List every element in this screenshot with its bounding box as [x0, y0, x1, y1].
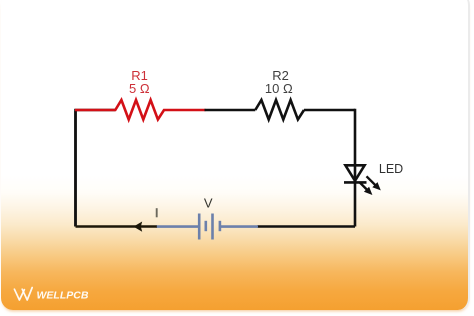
resistor R2 (black zigzag)	[255, 100, 304, 120]
current label I	[156, 208, 158, 217]
svg-text:WELLPCB: WELLPCB	[37, 289, 89, 301]
resistor R1 designator label	[131, 68, 148, 83]
wire: left vertical (black)	[74, 111, 77, 227]
current direction arrow (pointing left)	[134, 222, 143, 232]
wire: top middle black segment	[205, 109, 256, 112]
wire: top-left corner joint	[76, 110, 116, 227]
wire: battery right blue lead	[220, 225, 258, 228]
LED label	[379, 162, 403, 176]
resistor R1 (red zigzag + red leads)	[75, 100, 206, 120]
resistor R2 value label 10 Ω	[265, 81, 293, 96]
resistor R1 value label 5 Ω	[129, 81, 150, 96]
wire: right vertical segment	[354, 109, 357, 227]
LED D1 symbol (triangle + cathode bar + emission arrows)	[344, 165, 381, 195]
watermark logo: W icon	[14, 288, 32, 301]
battery label V	[204, 196, 213, 211]
svg-text:10 Ω: 10 Ω	[265, 81, 293, 96]
wire: top-right black segment	[304, 109, 355, 112]
svg-text:V: V	[204, 196, 213, 211]
watermark logo: WELLPCB text	[37, 289, 89, 301]
resistor R2 designator label	[272, 68, 289, 83]
wire: bottom-left black segment	[76, 225, 157, 228]
wire: bottom-right black segment	[257, 225, 355, 228]
wire: battery left blue lead	[156, 225, 199, 228]
svg-text:LED: LED	[379, 162, 403, 176]
battery V (four plates)	[199, 214, 220, 240]
svg-text:5 Ω: 5 Ω	[129, 81, 150, 96]
